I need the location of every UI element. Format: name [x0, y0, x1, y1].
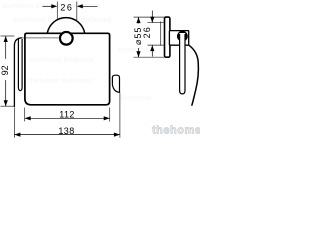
dim 26 side: line + arrows (outside)	[151, 11, 153, 23]
thin vertical helper line left of plate	[160, 22, 162, 46]
faint watermark rows	[2, 1, 151, 102]
svg-text:26: 26	[60, 3, 73, 13]
dim 112: extension lines	[24, 108, 26, 122]
dim 92: line + arrows	[5, 36, 7, 59]
cover curve (side profile)	[189, 45, 198, 105]
wall plate (rosette edge-on)	[165, 17, 170, 57]
rosette hump arc	[47, 18, 84, 34]
dim d55: line + arrows	[138, 17, 140, 23]
svg-text:138: 138	[58, 126, 74, 136]
roll plate (left, behind cover)	[14, 38, 22, 107]
svg-text:thehome: thehome	[120, 93, 151, 102]
svg-text:112: 112	[59, 110, 75, 120]
svg-text:thehome thehome thehome: thehome thehome thehome	[2, 1, 100, 10]
hinge circle	[60, 32, 73, 45]
dim 138: extension lines	[13, 108, 15, 138]
dim 92: extension lines	[1, 35, 15, 37]
svg-text:thehome thehome: thehome thehome	[28, 76, 93, 85]
dim 26 side: extension lines	[148, 22, 164, 24]
svg-text:thehome: thehome	[118, 45, 149, 54]
dim 26 top: right leader + arrow	[79, 5, 98, 7]
bracket	[169, 31, 188, 46]
svg-text:26: 26	[142, 26, 152, 38]
dim 26 top: left leader + arrow	[43, 5, 56, 7]
svg-text:thehome: thehome	[152, 125, 200, 137]
svg-text:thehome thehome thehome: thehome thehome thehome	[14, 15, 112, 24]
dim d55: extension lines	[134, 16, 165, 18]
dim 26 top: extension lines	[56, 2, 58, 20]
svg-text:thehome thehome: thehome thehome	[30, 55, 95, 64]
roll holder U-bar (front view)	[18, 39, 22, 91]
cover outline	[25, 33, 110, 105]
dim 112: line + arrows	[25, 117, 110, 119]
dim 138: line + arrows	[14, 134, 120, 136]
svg-text:92: 92	[0, 65, 10, 75]
right curl tab	[112, 75, 119, 92]
plate top thin line	[22, 37, 59, 39]
pivot knob ring	[178, 32, 186, 40]
roll pin U-bar (side view)	[180, 34, 185, 94]
roll pin bar white fill	[179, 33, 185, 93]
